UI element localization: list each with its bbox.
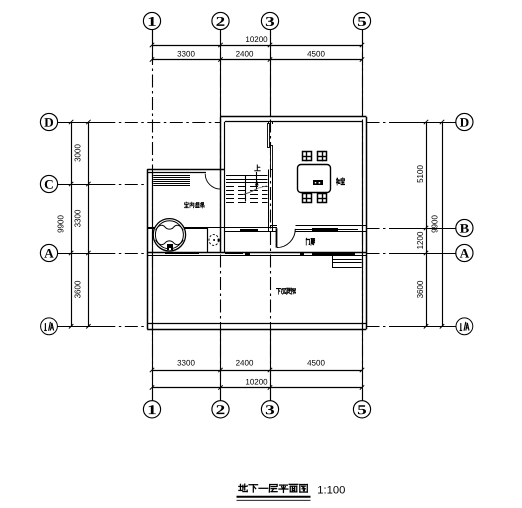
title underline thin xyxy=(237,499,311,501)
cushion top right xyxy=(318,152,327,161)
axis circle 3 bottom xyxy=(261,401,278,418)
axis circle 2 top xyxy=(212,12,229,29)
wall B line mid2 xyxy=(296,229,359,231)
wall axis2 line a xyxy=(220,117,222,253)
axis circle D left xyxy=(40,113,57,130)
title text (di xia yi ceng ping mian tu) xyxy=(239,484,307,492)
svg-text:3300: 3300 xyxy=(177,358,195,367)
wall hotspring top inner xyxy=(147,172,206,174)
entrance door leaf xyxy=(276,228,278,247)
left segment dim line xyxy=(88,122,90,326)
axis circle 1/A right xyxy=(456,318,473,335)
axis circle A left xyxy=(40,244,57,261)
svg-text:1:100: 1:100 xyxy=(317,485,345,497)
window sill A 2 xyxy=(225,252,243,254)
column A b xyxy=(300,252,304,255)
axis circle B right xyxy=(456,219,473,236)
svg-text:D: D xyxy=(44,115,54,130)
top dim ticks xyxy=(150,43,154,47)
label hot-spring room (shi nei wen quan) xyxy=(184,202,204,208)
bottom total dim line 10200 xyxy=(152,387,362,389)
wall axis2 line b xyxy=(224,122,226,253)
svg-text:3300: 3300 xyxy=(177,49,195,58)
svg-text:2: 2 xyxy=(216,402,226,417)
entry steps xyxy=(332,256,334,268)
toilet fixture xyxy=(209,235,219,246)
svg-text:3: 3 xyxy=(265,14,275,29)
axis circle C left xyxy=(40,175,57,192)
svg-text:5: 5 xyxy=(357,14,367,29)
entrance door swing arc xyxy=(277,229,295,248)
wall left inner xyxy=(152,173,154,329)
bench hatch lines xyxy=(153,175,190,177)
wall courtyard bottom outer xyxy=(147,329,366,331)
window sill B stair section xyxy=(240,229,258,232)
left total dim line 9900 xyxy=(71,122,73,326)
stair direction line xyxy=(243,189,257,195)
cushion bottom left xyxy=(303,194,312,203)
wall hotspring top outer xyxy=(147,169,225,171)
axis line 5 (vertical) xyxy=(362,30,364,402)
right total dim line 9900 xyxy=(442,122,444,326)
axis line B right xyxy=(367,228,457,230)
tatami table xyxy=(298,165,331,193)
hotspring door arc xyxy=(205,174,220,189)
svg-text:A: A xyxy=(44,246,54,261)
cushion bottom right xyxy=(318,194,327,203)
svg-text:3: 3 xyxy=(265,402,275,417)
tatami hearth xyxy=(313,180,323,185)
axis line 1 (vertical) xyxy=(152,30,154,402)
wall top outer xyxy=(221,116,367,118)
axis circle D right xyxy=(456,113,473,130)
wall B hotspring lower xyxy=(147,228,208,230)
top total dim line 10200 xyxy=(152,45,362,47)
text up (shang) xyxy=(254,165,260,171)
wall axis3 upper b xyxy=(272,122,274,124)
column A a xyxy=(245,252,250,255)
wall courtyard bottom inner xyxy=(147,323,366,325)
svg-text:9900: 9900 xyxy=(57,215,66,233)
svg-text:5: 5 xyxy=(357,402,367,417)
wall B tatami outer xyxy=(296,225,367,227)
svg-text:3300: 3300 xyxy=(74,209,83,227)
right dim ticks xyxy=(424,120,428,124)
axis line A left xyxy=(57,253,148,255)
stair up arrow xyxy=(256,172,258,190)
svg-text:2: 2 xyxy=(216,14,226,29)
svg-text:3000: 3000 xyxy=(74,144,83,162)
svg-text:9900: 9900 xyxy=(430,215,439,233)
window sill B tatami section xyxy=(312,228,338,231)
svg-text:A: A xyxy=(460,246,470,261)
svg-text:5100: 5100 xyxy=(416,165,425,183)
sliding door leaf 1 xyxy=(268,124,270,148)
svg-text:10200: 10200 xyxy=(245,35,268,44)
svg-text:B: B xyxy=(460,221,470,236)
wall top inner xyxy=(225,121,362,123)
axis circle 3 top xyxy=(261,12,278,29)
axis line D left xyxy=(57,122,220,124)
hotspring door leaf xyxy=(220,174,222,189)
wall B line mid xyxy=(147,227,277,229)
top segment dim line xyxy=(152,59,362,61)
wall B tatami porch side xyxy=(296,231,367,233)
axis line 2 (vertical) xyxy=(220,30,222,402)
toilet left wall xyxy=(207,227,209,253)
svg-text:1: 1 xyxy=(147,402,157,417)
left dim ticks xyxy=(86,120,90,124)
stair mid rail xyxy=(245,176,247,202)
axis extension solid segments xyxy=(152,30,154,64)
bottom segment dim line xyxy=(152,370,362,372)
label sunken courtyard (xia chen ting yuan) xyxy=(276,288,295,294)
wall B porch side xyxy=(225,231,277,233)
axis line D right xyxy=(367,122,457,124)
title underline thick xyxy=(237,496,311,498)
svg-text:4500: 4500 xyxy=(307,358,325,367)
tub outer circle xyxy=(153,219,185,251)
bottom dim ticks xyxy=(150,368,154,372)
wall left outer xyxy=(147,169,149,329)
wall right outer xyxy=(366,117,368,329)
stair treads xyxy=(226,175,268,177)
svg-text:1: 1 xyxy=(147,14,157,29)
axis line C left xyxy=(57,184,148,186)
axis line A right xyxy=(367,253,457,255)
sliding door leaf 2 xyxy=(271,146,273,170)
wall axis3 lower b xyxy=(272,170,274,232)
tub bottom wave xyxy=(156,240,184,245)
wall A line top xyxy=(147,252,366,254)
label porch (men lang) xyxy=(306,238,314,245)
svg-text:10200: 10200 xyxy=(245,377,268,386)
svg-text:2400: 2400 xyxy=(236,49,254,58)
svg-text:3600: 3600 xyxy=(416,280,425,298)
wall axis3 upper a xyxy=(268,122,270,124)
wall right inner xyxy=(362,122,364,329)
axis circle 5 top xyxy=(353,12,370,29)
axis line 1/A right xyxy=(367,326,457,328)
svg-text:4500: 4500 xyxy=(307,49,325,58)
svg-text:C: C xyxy=(44,177,54,192)
svg-text:1200: 1200 xyxy=(416,231,425,249)
svg-text:3600: 3600 xyxy=(74,280,83,298)
cushion top left xyxy=(303,152,312,161)
axis circle 2 bottom xyxy=(212,401,229,418)
axis circle 1/A left xyxy=(41,318,58,335)
tub drain block xyxy=(167,244,173,250)
axis circle 5 bottom xyxy=(353,401,370,418)
window sill A 1 xyxy=(165,252,199,254)
wall axis3 lower a xyxy=(268,170,270,232)
tub inner circle xyxy=(155,221,183,249)
right segment dim line xyxy=(426,122,428,326)
axis circle A right xyxy=(456,244,473,261)
tub top wave xyxy=(156,225,184,230)
window sill A 3 xyxy=(312,252,355,255)
axis line 3 (vertical) xyxy=(270,30,272,402)
axis line 1/A left xyxy=(57,326,148,328)
label tatami room (he shi) xyxy=(336,178,344,185)
svg-text:2400: 2400 xyxy=(236,358,254,367)
axis circle 1 bottom xyxy=(143,401,160,418)
axis circle 1 top xyxy=(143,12,160,29)
wall A line bottom xyxy=(147,255,366,257)
svg-text:D: D xyxy=(460,115,470,130)
